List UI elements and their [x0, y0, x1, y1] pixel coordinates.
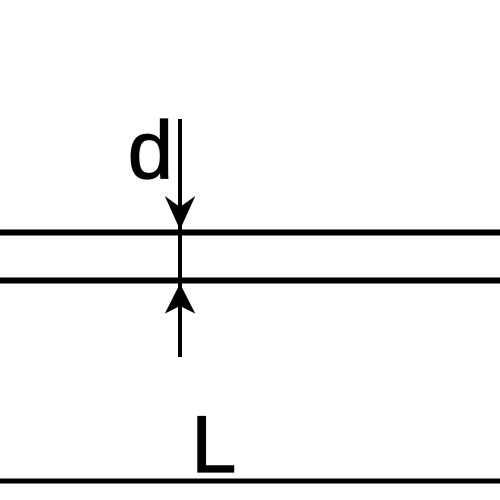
length dimension line L (bottom horizontal) [0, 479, 500, 484]
dimension line d (vertical shaft) [178, 119, 182, 357]
svg-text:L: L [191, 400, 236, 490]
arrowhead down (points at top edge of rod) [165, 196, 196, 230]
svg-text:d: d [128, 105, 173, 196]
arrowhead up (points at bottom edge of rod) [165, 284, 196, 314]
rod bottom edge line [0, 278, 500, 284]
rod top edge line [0, 230, 500, 236]
